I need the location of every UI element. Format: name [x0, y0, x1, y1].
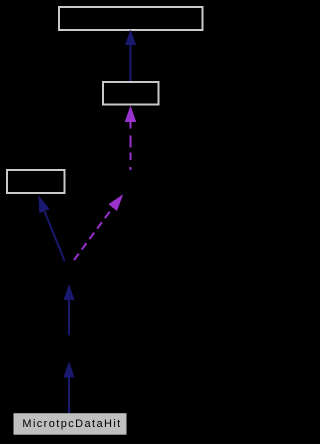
inheritance arrow E6 (hidden node N1 -> hidden node N2, solid midnightblue)	[64, 284, 75, 335]
usage arrow E2 (hidden node N3 -> B2, dashed darkorchid)	[125, 106, 137, 173]
class box B2 (middle base class, empty label)	[103, 82, 159, 105]
inheritance arrow E5 (MicrotpcDataHit -> hidden node N1, solid midnightblue)	[64, 361, 75, 413]
class box B3 (left base class, empty label)	[7, 170, 65, 193]
inheritance arrow E4 (hidden node N2 -> B3, solid midnightblue diagonal)	[38, 195, 64, 261]
class box MicrotpcDataHit (current class, grey filled)	[14, 413, 127, 435]
class box B1 (top base class, empty label)	[59, 7, 203, 30]
svg-text:MicrotpcDataHit: MicrotpcDataHit	[22, 418, 121, 430]
inheritance arrow E1 (B2 -> B1, solid midnightblue)	[125, 30, 136, 82]
usage arrow E3 (hidden node N2 -> hidden node N3, dashed darkorchid diagonal)	[74, 194, 123, 260]
